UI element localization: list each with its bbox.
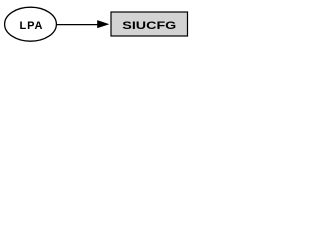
wire edge LPA to SIUCFG xyxy=(56,24,98,26)
svg-text:SIUCFG: SIUCFG xyxy=(122,20,176,32)
node SIUCFG (box) xyxy=(111,12,188,36)
background xyxy=(0,0,189,48)
node LPA (ellipse) xyxy=(5,7,57,41)
svg-text:LPA: LPA xyxy=(20,20,43,32)
arrowhead xyxy=(97,20,108,28)
